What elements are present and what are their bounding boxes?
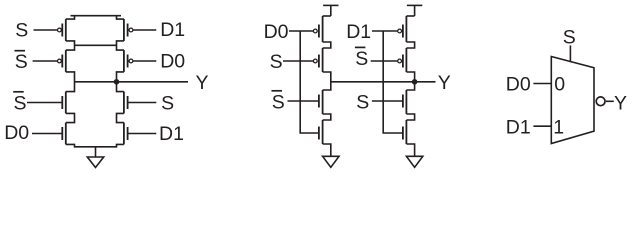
wire output Y rail (middle circuit) — [331, 81, 436, 83]
svg-text:D1: D1 — [506, 116, 531, 138]
wire bottom ground rail — [66, 144, 124, 146]
gate lead P5 (D0) — [289, 30, 313, 32]
transistor N8 (NMOS gate D1) — [405, 120, 407, 144]
svg-text:S: S — [161, 92, 174, 114]
wire P4 drain down to Y rail and N2 drain — [117, 72, 124, 92]
svg-text:D1: D1 — [160, 19, 185, 41]
wire P6 (PMOS gate S) drain to output node to N5 (NMOS gate S-bar) drain — [323, 72, 331, 90]
svg-text:D0: D0 — [264, 21, 289, 43]
gate lead N2 — [128, 102, 157, 104]
transistor P6 (PMOS gate S) — [322, 48, 324, 72]
gate lead N4 — [128, 133, 157, 135]
wire D1 input lead — [533, 125, 551, 127]
svg-text:Y: Y — [438, 72, 451, 94]
node Y junction dot (middle circuit) — [412, 79, 418, 85]
wire D0 input lead — [533, 83, 551, 85]
svg-text:S: S — [14, 92, 27, 114]
svg-text:D0: D0 — [160, 50, 185, 72]
gate lead N3 — [32, 133, 62, 135]
gate lead P4 — [133, 60, 156, 62]
gate lead P1 — [34, 29, 58, 31]
wire ground stem — [95, 147, 97, 157]
gate lead P7 (D1) — [372, 30, 397, 32]
wire P3 drain down to Y rail and N1 drain — [66, 72, 75, 92]
gate lead N7 (S) — [372, 100, 403, 102]
svg-text:0: 0 — [554, 74, 565, 96]
svg-text:D0: D0 — [506, 74, 531, 96]
mux symbol U1 body — [551, 57, 594, 144]
wire P7 (PMOS gate D1) source to P8 (PMOS gate S-bar) drain — [406, 42, 414, 48]
wire N5 (NMOS gate S-bar) source to N6 (NMOS gate D0) drain — [323, 114, 331, 120]
svg-text:S: S — [356, 92, 369, 114]
svg-text:S: S — [15, 20, 28, 42]
svg-text:1: 1 — [553, 116, 564, 138]
transistor N6 (NMOS gate D0) — [322, 120, 324, 144]
ground symbol (left circuit) — [87, 157, 103, 168]
transistor P5 (PMOS gate D0) — [322, 16, 324, 42]
ground symbol (tristate B) — [406, 156, 422, 167]
wire P5 (PMOS gate D0) source to P6 (PMOS gate S) drain — [323, 42, 331, 48]
transistor N7 (NMOS gate S) — [405, 90, 407, 114]
wire N8 (NMOS gate D1) source to ground — [406, 144, 414, 156]
wire P1 drain stub to top rail — [66, 16, 75, 19]
wire N6 (NMOS gate D0) source to ground — [323, 144, 331, 156]
wire Y output lead — [606, 100, 614, 102]
inversion bubble on U1 output — [596, 97, 605, 106]
wire rail joining P1/P2 sources to P3/P4 sources — [75, 44, 117, 46]
power VDD (tristate A) — [323, 4, 338, 6]
transistor N2 (NMOS, gate S, right branch) — [123, 92, 125, 114]
gate lead P3 — [33, 60, 57, 62]
svg-text:S: S — [355, 48, 368, 70]
transistor N5 (NMOS gate S-bar) — [322, 90, 324, 114]
power VDD (tristate B) — [407, 4, 422, 6]
gate lead P6 (S) — [283, 60, 313, 62]
wire VDD top rail — [71, 15, 122, 17]
transistor N4 (NMOS, gate D1, right branch) — [123, 123, 125, 145]
svg-text:D1: D1 — [159, 123, 184, 145]
gate lead N5 (S-bar) — [288, 100, 319, 102]
wire output Y rail — [75, 81, 189, 83]
gate lead P8 (S-bar) — [371, 60, 398, 62]
ground symbol (tristate A) — [323, 156, 339, 167]
wire VDD to P5 (PMOS gate D0) drain — [323, 15, 331, 17]
transistor P3 (PMOS, gate S-bar, left of second pair) — [65, 50, 67, 72]
wire P8 (PMOS gate S-bar) drain to output node to N7 (NMOS gate S) drain — [406, 72, 414, 90]
svg-text:Y: Y — [196, 72, 209, 94]
wire data input net (tristate A) — [300, 31, 319, 133]
wire P1 source to rail to P3 source — [66, 41, 75, 50]
gate lead P2 — [133, 29, 156, 31]
wire P2 drain stub to top rail — [117, 16, 124, 19]
transistor N1 (NMOS, gate S-bar, left branch) — [65, 92, 67, 114]
svg-text:S: S — [272, 91, 285, 113]
transistor N3 (NMOS, gate D0, left branch) — [65, 123, 67, 145]
svg-text:D1: D1 — [346, 21, 371, 43]
wire select S lead — [569, 45, 571, 61]
wire P2 source to rail to P4 source — [117, 41, 124, 50]
svg-text:S: S — [270, 51, 283, 73]
wire N1 source to N3 drain — [66, 113, 75, 122]
wire VDD to P7 (PMOS gate D1) drain — [406, 15, 414, 17]
wire data input net (tristate B) — [383, 31, 403, 133]
wire N7 (NMOS gate S) source to N8 (NMOS gate D1) drain — [406, 114, 414, 120]
svg-text:S: S — [15, 51, 28, 73]
transistor P8 (PMOS gate S-bar) — [405, 48, 407, 72]
svg-text:Y: Y — [614, 92, 627, 114]
wire N2 source to N4 drain — [117, 113, 124, 122]
transistor P1 (PMOS, gate S, left of top pair) — [65, 19, 67, 41]
transistor P4 (PMOS, gate D0, right of second pair) — [123, 50, 125, 72]
svg-text:D0: D0 — [4, 122, 29, 144]
svg-text:S: S — [563, 27, 576, 49]
transistor P2 (PMOS, gate D1, right of top pair) — [123, 19, 125, 41]
node Y junction dot — [114, 79, 120, 85]
transistor P7 (PMOS gate D1) — [405, 16, 407, 42]
gate lead N1 — [27, 102, 62, 104]
